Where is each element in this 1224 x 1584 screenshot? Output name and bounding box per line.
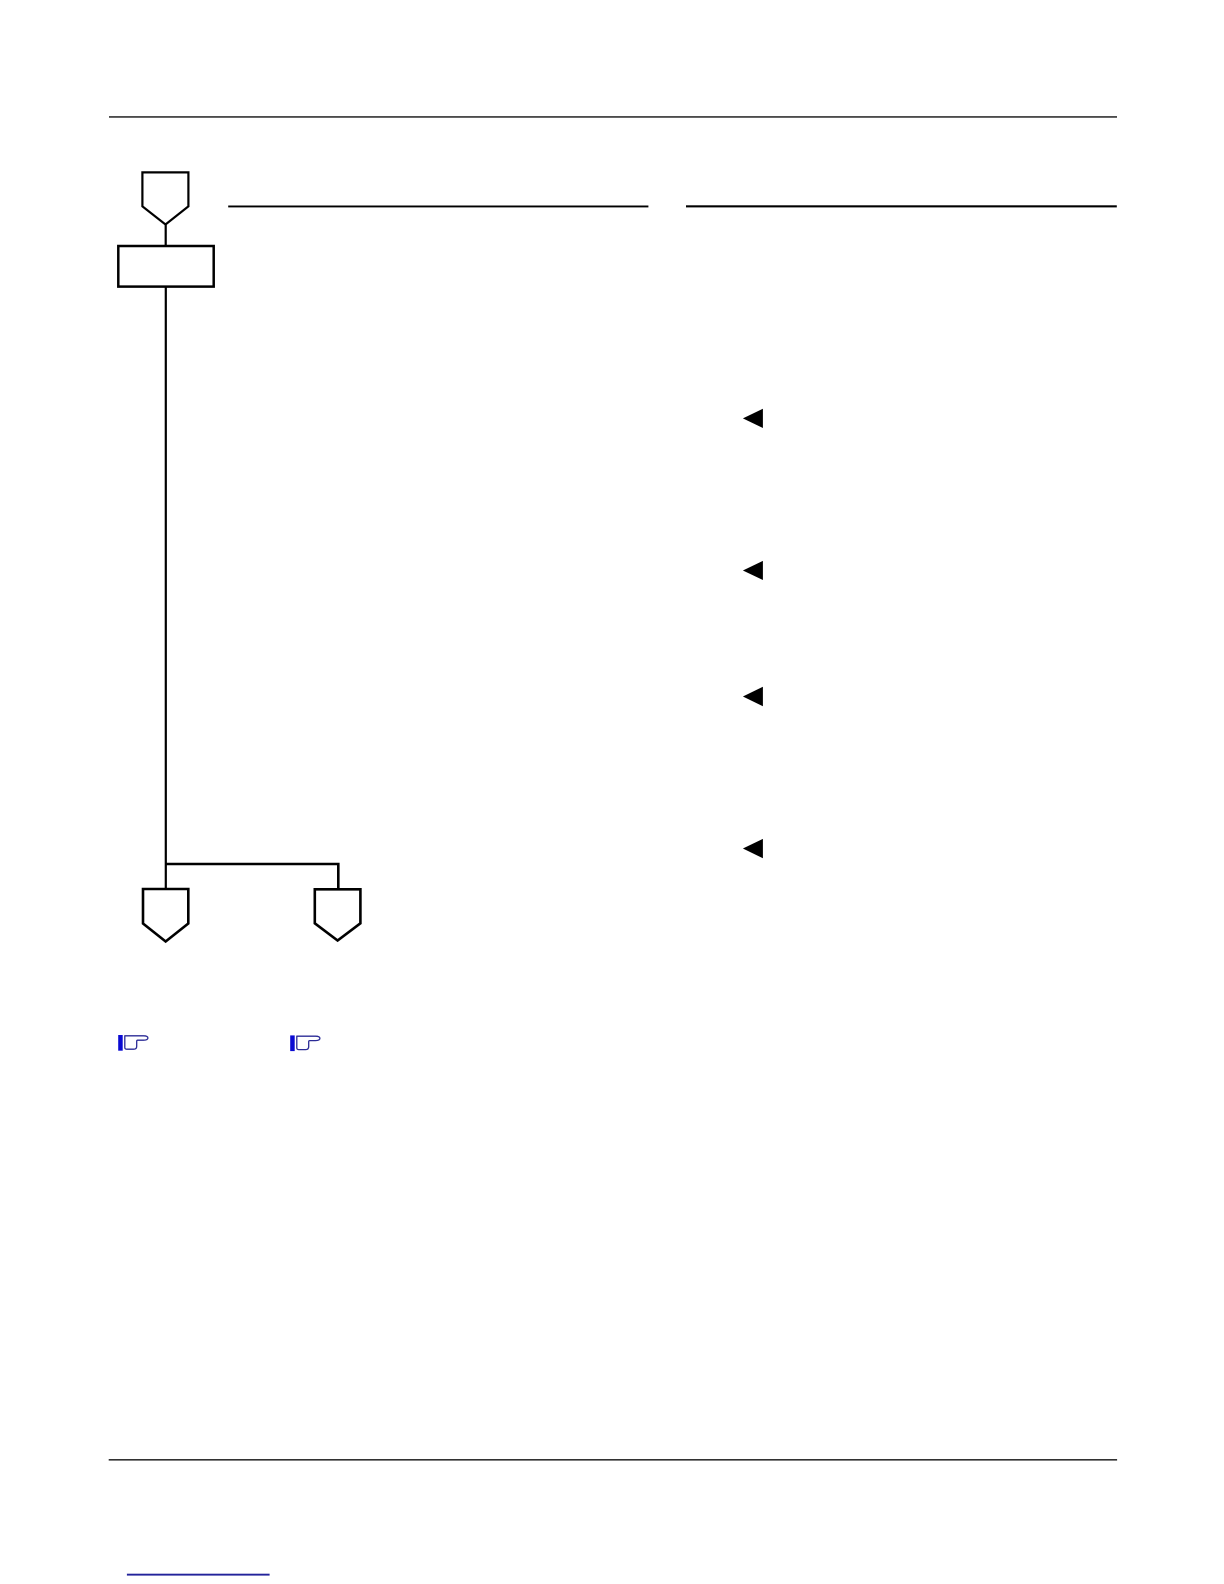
wire: branch to right exit xyxy=(166,864,338,889)
wire: main vertical stem xyxy=(165,287,167,889)
change marker triangle 3 xyxy=(743,687,763,706)
header rule xyxy=(109,116,1117,117)
off-page connector (bottom left exit pentagon) xyxy=(143,889,188,942)
wire: connector tip to process box xyxy=(165,224,167,246)
process box xyxy=(118,246,213,287)
change marker triangle 1 xyxy=(743,409,763,428)
right heading underline xyxy=(686,205,1117,207)
off-page connector (bottom right exit pentagon) xyxy=(315,889,361,940)
change marker triangle 4 xyxy=(743,839,763,858)
change marker triangle 2 xyxy=(743,561,763,580)
off-page connector (top entry pentagon) xyxy=(142,172,188,224)
footer link underline xyxy=(127,1574,270,1576)
pointing-hand icon 1 xyxy=(118,1035,148,1051)
pointing-hand icon 2 xyxy=(290,1035,320,1051)
footer rule xyxy=(109,1459,1117,1460)
left heading underline xyxy=(228,206,648,208)
